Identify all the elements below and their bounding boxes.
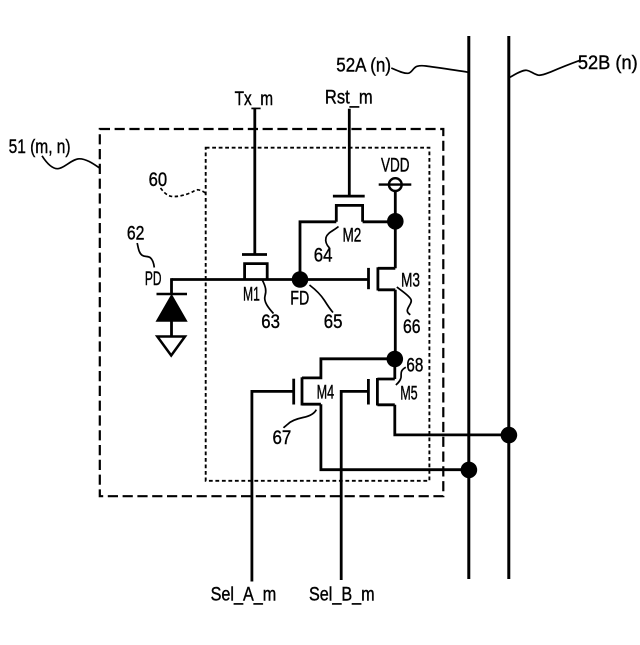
svg-text:Sel_A_m: Sel_A_m [211, 584, 277, 606]
svg-text:M1: M1 [243, 284, 260, 306]
svg-text:60: 60 [149, 169, 168, 191]
svg-text:VDD: VDD [381, 155, 410, 177]
transistor M1 [242, 255, 267, 280]
svg-text:67: 67 [273, 427, 292, 449]
wire M3 source down to node 68 [394, 290, 397, 359]
wire node 68 to M4 drain [302, 359, 395, 378]
leader squiggle for 68 [396, 367, 406, 385]
leader squiggle for 64 [326, 227, 339, 249]
svg-text:63: 63 [261, 311, 280, 333]
svg-text:M4: M4 [317, 382, 335, 404]
wire Sel_A_m to M4 gate [252, 391, 294, 581]
wire Tx_m gate line [253, 108, 256, 255]
wire FD up to M2 source [300, 222, 336, 280]
svg-text:M3: M3 [401, 270, 420, 292]
svg-text:64: 64 [314, 245, 333, 267]
transistor M3 [369, 267, 396, 290]
svg-text:51 (m, n): 51 (m, n) [9, 136, 71, 158]
VDD supply symbol [379, 178, 412, 191]
wire VDD down to M3 drain [394, 191, 397, 268]
wire M5 source to node on 52B [395, 405, 509, 435]
leader squiggle for 67 [284, 410, 317, 428]
photodiode PD cathode bar [157, 293, 188, 296]
wire PD to ground [170, 321, 173, 336]
wire M4 source to node on 52A [321, 404, 469, 470]
svg-text:Rst_m: Rst_m [325, 87, 373, 109]
svg-text:M2: M2 [343, 225, 362, 247]
transistor M5 [368, 378, 394, 406]
leader squiggle for 52A [391, 66, 468, 74]
node junction dot on 52A [461, 462, 478, 479]
leader squiggle for 62 [137, 243, 154, 268]
svg-text:PD: PD [145, 268, 162, 290]
svg-text:Sel_B_m: Sel_B_m [309, 584, 375, 606]
transistor M2 [333, 196, 365, 222]
svg-text:66: 66 [403, 316, 421, 338]
wire PD anode drop [170, 278, 173, 295]
svg-text:M5: M5 [400, 383, 418, 405]
leader squiggle for 66 [397, 287, 411, 315]
svg-text:Tx_m: Tx_m [235, 88, 274, 110]
leader squiggle for 63 [262, 280, 274, 314]
wire node 68 to M5 drain [393, 359, 396, 379]
wire PD to M1 to M3 gate (node FD row) [172, 278, 369, 281]
node junction dot on 52B [501, 427, 518, 444]
vertical signal line 52B(n) [507, 36, 510, 579]
svg-text:68: 68 [406, 355, 423, 377]
svg-text:52A (n): 52A (n) [336, 54, 391, 76]
leader squiggle for 65 [310, 285, 334, 313]
leader squiggle for 51 [42, 156, 99, 169]
svg-text:62: 62 [127, 222, 145, 244]
transistor M4 [294, 377, 321, 405]
ground symbol (open triangle) [157, 337, 185, 356]
vertical signal line 52A(n) [467, 36, 470, 579]
svg-text:FD: FD [290, 288, 309, 310]
inner dotted shared-circuit box 60 [206, 148, 430, 481]
outer dashed pixel box 51 [100, 129, 444, 496]
node FD junction dot [292, 271, 309, 288]
svg-text:52B (n): 52B (n) [578, 52, 638, 74]
node VDD junction dot [387, 213, 404, 230]
wire M2 drain to VDD node [363, 220, 396, 223]
node 68 junction dot [387, 351, 404, 368]
wire Sel_B_m to M5 gate [341, 391, 368, 580]
leader squiggle for 52B [509, 61, 579, 78]
svg-text:65: 65 [324, 311, 343, 333]
photodiode PD triangle [157, 295, 187, 321]
wire Rst_m gate line [348, 109, 351, 196]
leader dashed squiggle for 60 [161, 188, 206, 197]
